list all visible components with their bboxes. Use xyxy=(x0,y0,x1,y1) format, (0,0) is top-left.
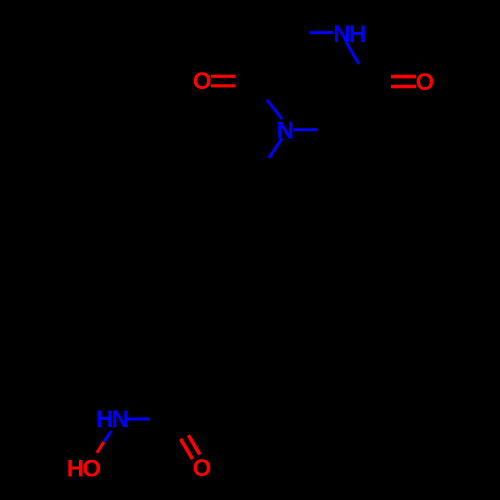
bond N2-C14 (amide) xyxy=(127,418,150,421)
bond C2-N1 xyxy=(267,100,282,119)
double bond C2=O1 xyxy=(211,76,236,86)
bond C3-N4 xyxy=(310,31,334,34)
bond N1-C7 (chain) xyxy=(269,139,282,159)
svg-text:NH: NH xyxy=(333,21,365,48)
bond N1-C6 xyxy=(294,128,319,131)
svg-text:O: O xyxy=(193,68,212,95)
double bond C14=O4 xyxy=(181,435,200,459)
bond N2-O3 red half xyxy=(97,442,104,453)
svg-text:HN: HN xyxy=(96,406,128,433)
svg-text:O: O xyxy=(416,69,435,96)
svg-text:HO: HO xyxy=(67,455,101,482)
svg-text:O: O xyxy=(193,455,212,482)
bond N4-C5 xyxy=(346,42,359,64)
double bond C5=O2 xyxy=(391,77,416,87)
bond N2-O3 blue half xyxy=(104,431,111,442)
